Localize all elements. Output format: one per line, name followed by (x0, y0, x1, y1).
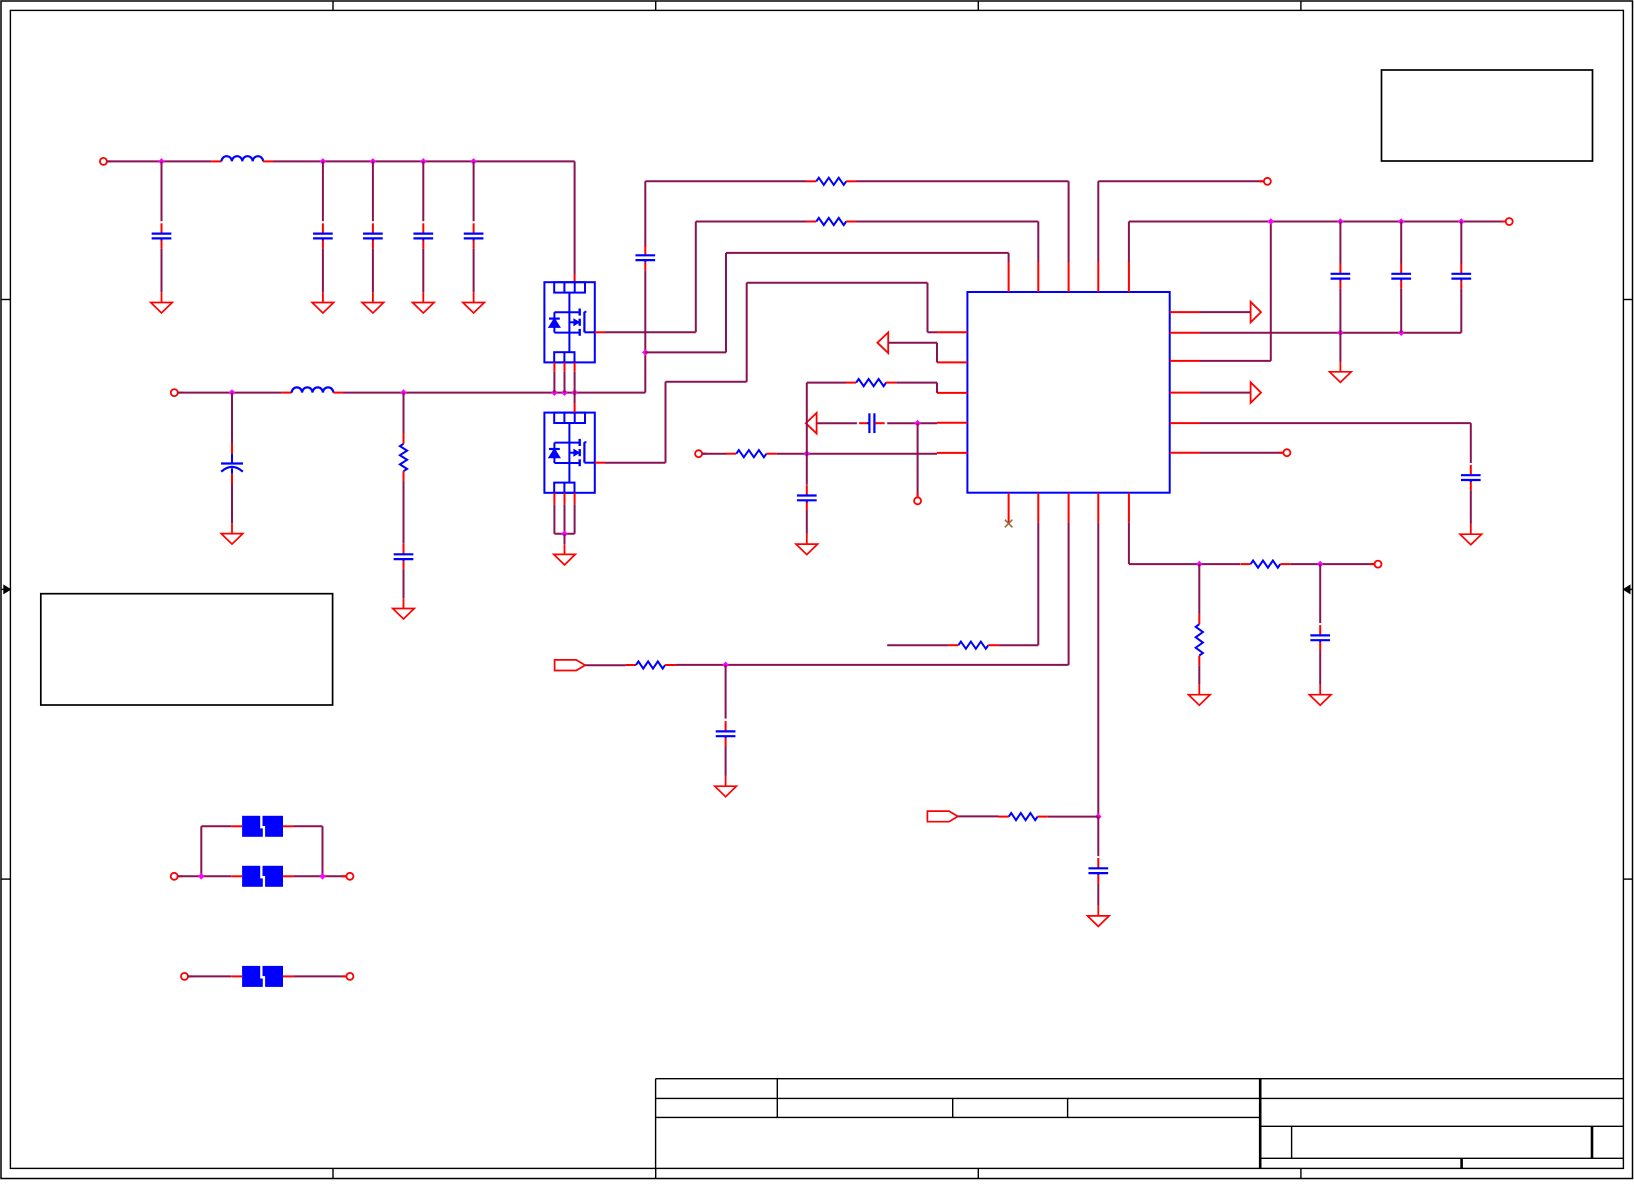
wire FB cap C16 upper (725, 665, 727, 719)
junction SS R9 (1196, 561, 1203, 568)
border tick bottom 2 (655, 1168, 657, 1179)
border tick top 2 (655, 1, 657, 10)
terminal bead row2 left (171, 873, 183, 880)
pin U1 left stubs (937, 332, 967, 453)
wire terminal to R3 (702, 453, 726, 455)
border tick top 1 (332, 1, 334, 10)
wire VCC cap C12 lower (1400, 289, 1402, 333)
capacitor C15 (1461, 465, 1481, 490)
wire VOUT cap C6 upper (231, 393, 233, 444)
wire SS net (1129, 523, 1240, 564)
terminal VCC (1501, 218, 1513, 225)
wire R7 to junction (1048, 816, 1098, 818)
wire VIN cap C3 upper (372, 161, 374, 221)
ground VCC caps (1330, 362, 1352, 383)
transistor Q1 high-side MOSFET (544, 282, 594, 362)
wire ILIM to R5 (999, 523, 1039, 645)
wire VCC caps bus lower (1200, 332, 1461, 334)
wire C15 to ground (1470, 490, 1472, 524)
wire VOUT cap C6 lower (231, 484, 233, 523)
resistor R6 (626, 661, 676, 668)
wire C10 to ground (806, 511, 808, 534)
wire SW sense to IC (645, 253, 1008, 353)
ferrite bead FB1 (231, 815, 293, 837)
wire HO net to R2 (696, 221, 806, 223)
wire VOUT to L2 (178, 392, 282, 394)
terminal VIN input (100, 158, 112, 165)
pin Q2 gate stub (595, 462, 605, 464)
wire VIN cap C2 lower (322, 249, 324, 293)
inductor L2 (281, 387, 343, 392)
pin Q1 source stubs (554, 362, 574, 371)
wire C8 to SW junction (644, 271, 646, 393)
capacitor C7 (394, 544, 414, 569)
wire SYNC out (1200, 452, 1284, 454)
wire VIN cap C2 upper (322, 161, 324, 221)
pin Q2 source stubs (554, 493, 574, 504)
border tick top 4 (1300, 1, 1302, 10)
wire VIN cap C1 lower (161, 249, 163, 293)
wire VCC cap C13 lower (1460, 289, 1462, 333)
terminal comp (914, 493, 921, 505)
resistor R10 (1196, 614, 1203, 666)
terminal feedback input (695, 450, 707, 457)
wire VIN cap C4 upper (422, 161, 424, 221)
port arrow feedforward (806, 413, 817, 434)
resistor R2 (806, 218, 857, 225)
junction VDD sense (1268, 218, 1275, 225)
wire VIN bus drop to Q1 drain (574, 161, 576, 274)
wire EN to arrow (1200, 311, 1251, 313)
border center arrow left (1, 585, 10, 593)
wire bead row3 left (188, 975, 231, 977)
wire RT net (1097, 523, 1099, 817)
wire VCC cap C12 upper (1400, 222, 1402, 264)
wire PGOOD to arrow (1200, 392, 1251, 394)
wire bead row3 right (293, 975, 346, 977)
border tick left 1 (1, 299, 10, 301)
junction divider mid (804, 450, 811, 457)
capacitor C18 (1310, 625, 1330, 650)
port arrow HO sense out (877, 332, 888, 353)
wire VREG to C15 (1200, 423, 1471, 463)
wire VIN cap C3 lower (372, 249, 374, 293)
border tick left 2 (1, 878, 10, 880)
pin Q2 drain stub (574, 403, 576, 413)
wire R1 to IC pin (857, 181, 1069, 262)
wire BOOT corner to R1 (645, 181, 806, 246)
wire FB port to R6 (585, 664, 626, 666)
terminal SYNC (1279, 449, 1291, 456)
pin U1 right stubs (1170, 312, 1200, 453)
ground C7 (393, 598, 415, 619)
junction cap C12 upper (1398, 218, 1405, 225)
wire junction down to terminal (917, 423, 919, 497)
wire arrow to IC pin (888, 343, 937, 363)
ground Q2 source (554, 544, 576, 565)
junction RT (1095, 813, 1102, 820)
capacitor C1 (152, 223, 172, 248)
junction cap C11 upper (1337, 218, 1344, 225)
junction VIN cap C4 (420, 158, 427, 165)
wire divider top to R4 (807, 382, 846, 384)
wire VIN cap C1 upper (161, 161, 163, 221)
ground VIN cap C2 (312, 292, 334, 313)
capacitor C5 (464, 223, 484, 248)
capacitor C3 (363, 223, 383, 248)
wire R10 upper (1198, 564, 1200, 614)
pin Q1 drain stub (574, 274, 576, 282)
wire VIN cap C4 lower (422, 249, 424, 293)
junction bead right (319, 873, 326, 880)
junction cap C11 lower (1337, 329, 1344, 336)
junction C9 branch (914, 420, 921, 427)
wire Q1 gate to HO net (605, 222, 696, 333)
terminal VOUT (171, 389, 183, 396)
junction SS cap (1317, 561, 1324, 568)
wire R9 to C18 (1291, 563, 1375, 565)
wire C18 to ground (1319, 651, 1321, 685)
capacitor C9 feedforward (859, 413, 885, 433)
ground C15 (1460, 524, 1482, 545)
port FB (555, 660, 586, 671)
ground VIN cap C5 (463, 292, 485, 313)
capacitor C6 polarized (221, 443, 243, 484)
port arrow EN (1251, 302, 1261, 323)
border tick bottom 4 (1300, 1168, 1302, 1179)
wire VDD sense (1200, 222, 1271, 361)
wire bead FB1 loop left (201, 826, 231, 876)
wire R2 to IC pin (857, 222, 1039, 263)
border tick bottom 1 (332, 1168, 334, 1179)
wire bead row2 left (178, 875, 232, 877)
ground VIN cap C3 (362, 292, 384, 313)
capacitor C2 (313, 223, 333, 248)
no-connect X (1005, 520, 1013, 528)
border tick right 2 (1623, 878, 1633, 880)
resistor R3 (726, 450, 777, 457)
wire RT cap C17 upper (1097, 817, 1099, 857)
wire VCC bus (1129, 222, 1506, 263)
capacitor C17 (1088, 858, 1108, 883)
junction VIN cap C5 (470, 158, 477, 165)
wire bead FB1 loop right (293, 826, 322, 876)
title block (656, 1079, 1624, 1169)
capacitor C4 (413, 223, 433, 248)
wire VCC cap C11 lower (1339, 289, 1341, 333)
junction Q2 source (561, 531, 568, 538)
wire VIN bus (273, 160, 574, 162)
ground R10 (1189, 684, 1211, 705)
ground VIN cap C4 (413, 292, 435, 313)
border tick right 1 (1623, 299, 1633, 301)
wire Q2 source to ground (564, 534, 566, 544)
junction Q1 source pin1 (551, 389, 558, 396)
wire VCC cap C11 upper (1339, 222, 1341, 264)
junction Q1 source pin2 (561, 389, 568, 396)
transistor Q2 low-side MOSFET (544, 413, 594, 493)
wire C9 to IC pin (887, 422, 937, 424)
wire SW bus to Q2 drain (574, 393, 576, 403)
wire Q2 source join (554, 504, 574, 534)
wire lower bus ground stub (1339, 333, 1341, 362)
resistor R1 (806, 178, 857, 185)
wire divider to C10 (806, 454, 808, 485)
inductor L1 (211, 156, 273, 161)
wire bead row2 right (293, 875, 346, 877)
ground C17 (1088, 906, 1110, 927)
wire R8 to C7 (403, 482, 405, 544)
wire arrow to C9 (817, 422, 857, 424)
resistor R4 (846, 379, 897, 386)
junction SW R8 divider (400, 389, 407, 396)
ground VIN cap C1 (151, 292, 173, 313)
capacitor C13 (1451, 264, 1471, 289)
wire R4 to IC FB pin (896, 383, 937, 393)
wire divider vertical (806, 383, 808, 454)
op-amp U1 controller IC (967, 292, 1169, 493)
capacitor C12 (1391, 264, 1411, 289)
capacitor C10 (797, 485, 817, 510)
wire VIN input to L1 (107, 160, 211, 162)
resistor R5 (948, 642, 999, 649)
terminal SS (1370, 561, 1382, 568)
resistor R9 (1240, 561, 1290, 568)
revision note box (1382, 70, 1593, 161)
wire SW to R8 (403, 393, 405, 434)
wire FB net (675, 523, 1068, 665)
resistor R8 (400, 434, 407, 482)
terminal bead row2 right (342, 873, 354, 880)
capacitor C16 (716, 721, 736, 746)
wire VCC cap C13 upper (1460, 222, 1462, 264)
terminal VDD (1259, 178, 1271, 185)
wire VDD to terminal (1098, 181, 1264, 262)
border center arrow right (1623, 585, 1633, 593)
ferrite bead FB2 (231, 865, 293, 887)
pin U1 top stubs (1009, 262, 1129, 292)
ferrite bead FB3 (231, 965, 293, 987)
pin Q1 gate stub (595, 331, 605, 333)
wire C17 to ground (1097, 883, 1099, 905)
junction cap C13 upper (1458, 218, 1465, 225)
border tick top 3 (977, 1, 979, 10)
wire R10 to ground (1198, 666, 1200, 685)
border tick bottom 3 (977, 1168, 979, 1179)
junction bead left (198, 873, 205, 880)
junction VIN cap C3 (370, 158, 377, 165)
junction cap C12 lower (1398, 329, 1405, 336)
capacitor C8 bootstrap (635, 245, 655, 270)
wire Q2 gate to LO net (605, 283, 937, 463)
wire R5 open end (887, 644, 948, 646)
resistor R7 (999, 813, 1048, 820)
wire C18 upper (1319, 564, 1321, 623)
pin U1 bottom stubs (1009, 493, 1129, 523)
ground C10 (796, 534, 818, 555)
port arrow PGOOD (1251, 382, 1261, 403)
terminal bead row3 left (181, 973, 193, 980)
junction Q1 source pin3 (571, 389, 578, 396)
wire R3 to IC pin (777, 453, 937, 455)
capacitor C11 (1331, 264, 1351, 289)
terminal bead row3 right (342, 973, 354, 980)
ground C18 (1309, 684, 1331, 705)
notes box (41, 594, 333, 705)
wire SW bus (344, 392, 646, 394)
wire RT port to R7 (958, 815, 999, 817)
ground VOUT cap C6 (221, 523, 243, 544)
wire VIN cap C5 lower (473, 249, 475, 293)
junction VIN bulk cap (158, 158, 165, 165)
port RT (927, 811, 958, 822)
wire C7 to ground (403, 569, 405, 598)
junction FB cap (722, 662, 729, 669)
wire VIN cap C5 upper (473, 161, 475, 221)
junction SW sense (642, 349, 649, 356)
junction VIN cap C2 (320, 158, 327, 165)
wire C16 to ground (725, 747, 727, 776)
junction VOUT cap C6 (229, 389, 236, 396)
ground C16 (715, 776, 737, 797)
wire Q1 source to SW bus (554, 372, 574, 393)
